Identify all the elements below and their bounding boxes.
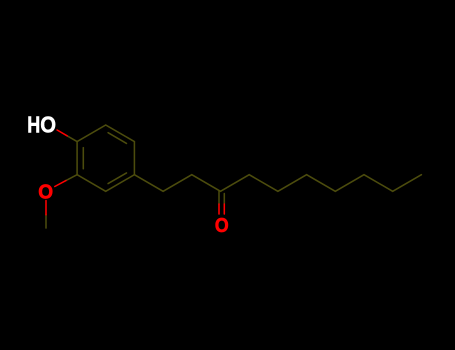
svg-text:H: H bbox=[27, 112, 40, 138]
svg-text:O: O bbox=[215, 215, 229, 237]
svg-text:O: O bbox=[40, 112, 56, 138]
svg-text:O: O bbox=[38, 182, 53, 204]
